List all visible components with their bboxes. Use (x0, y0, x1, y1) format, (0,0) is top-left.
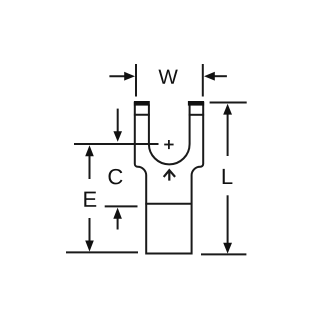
W dimension right extension line (202, 64, 204, 97)
label W (158, 70, 177, 84)
W right arrow (points left) (213, 75, 227, 77)
left prong cap (filled) (134, 101, 150, 106)
E up arrowhead (85, 145, 94, 156)
label E (84, 192, 96, 207)
terminal body outline (fork terminal, outer contour with neck shoulders and shank) (135, 102, 203, 254)
left prong cross line (134, 114, 150, 116)
C bottom up arrow shaft (117, 219, 119, 230)
L up arrow shaft (227, 112, 229, 156)
W dimension left extension line (135, 64, 137, 97)
C down arrowhead (113, 131, 122, 142)
label C (109, 169, 123, 185)
L dimension top extension line (210, 102, 247, 104)
C dimension bottom extension line (105, 205, 138, 207)
E dimension bottom extension line (66, 251, 138, 253)
E bottom down arrow shaft (89, 218, 91, 241)
C up arrowhead (113, 208, 122, 219)
E down arrowhead (85, 241, 94, 252)
E top up arrow shaft (89, 154, 91, 179)
W left arrowhead (124, 72, 135, 81)
small up arrow inside body (164, 170, 175, 180)
L dimension bottom extension line (201, 253, 246, 255)
L down arrow shaft (227, 195, 229, 245)
label L (223, 169, 233, 184)
L up arrowhead (223, 104, 232, 115)
W left arrow (points right) (109, 75, 126, 77)
fork slot inner edges and U-shaped slot arc (149, 105, 190, 165)
L down arrowhead (223, 243, 232, 254)
barrel seam line across shank (145, 203, 192, 205)
W right arrowhead (204, 72, 215, 81)
C/E shared top extension line (74, 143, 159, 145)
right prong cross line (189, 114, 204, 116)
C top down arrow shaft (117, 109, 119, 133)
right prong cap (filled) (188, 101, 204, 106)
slot center mark (+) (164, 140, 173, 149)
